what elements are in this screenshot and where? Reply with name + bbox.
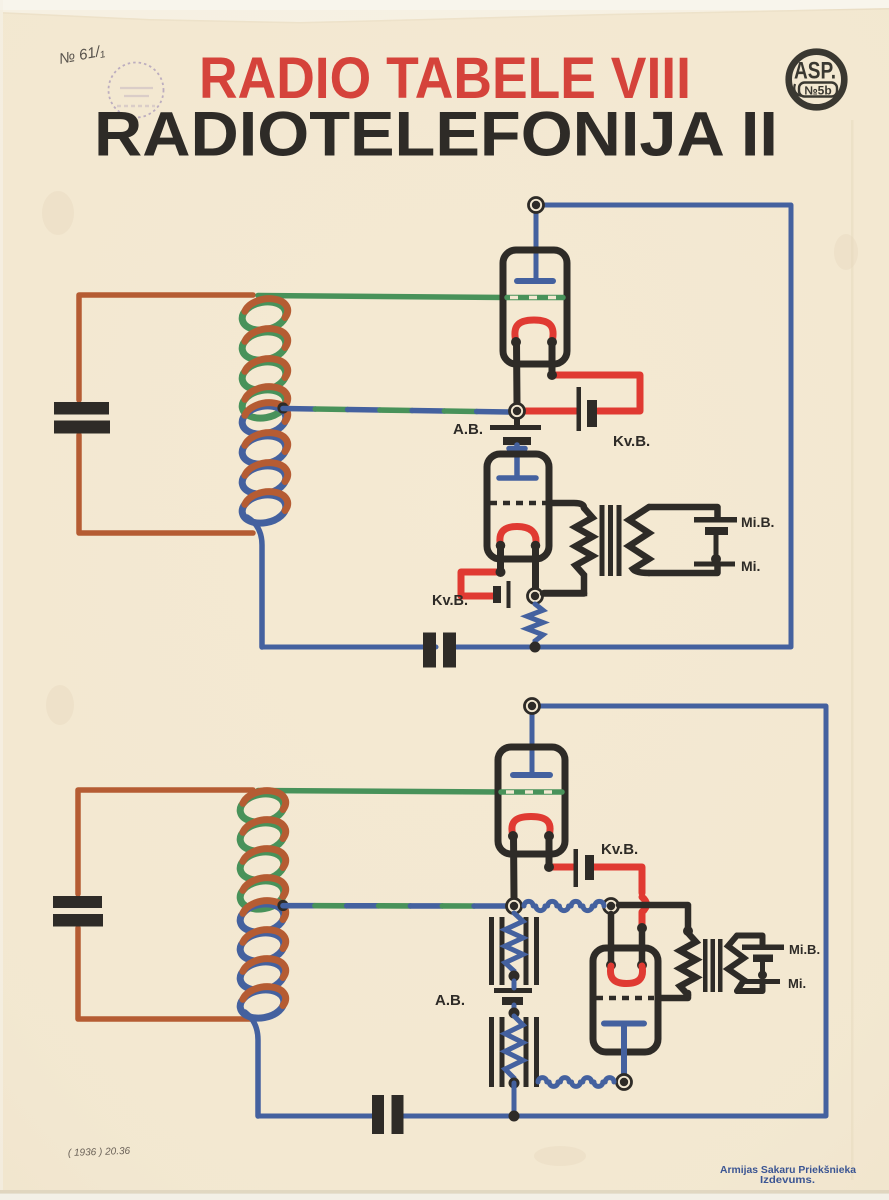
valve V4 envelope (inverted) xyxy=(593,948,658,1052)
wire: orange aerial circuit loop xyxy=(79,295,253,533)
battery Mi.B. (microphone battery) xyxy=(694,517,737,535)
capacitor C2 on bottom rail xyxy=(423,633,456,668)
capacitor C3 (aerial tuning, bottom left) xyxy=(53,896,103,927)
valve V4 filament (red, at top) xyxy=(606,960,616,970)
node: HT terminal bottom circuit xyxy=(525,699,540,714)
wavy connector choke2 to terminal D xyxy=(538,1078,614,1087)
svg-text:( 1936 ) 20.36: ( 1936 ) 20.36 xyxy=(68,1146,131,1159)
wire: stem from terminal to A.B. xyxy=(514,416,520,425)
svg-text:A.B.: A.B. xyxy=(435,992,465,1009)
transformer T1 primary winding (zigzag) xyxy=(544,508,593,593)
node: terminal D xyxy=(617,1075,632,1090)
battery A.B. (grid bias) xyxy=(490,425,541,445)
node: terminal A (grid return) xyxy=(507,899,522,914)
node: grid-return terminal under V1 xyxy=(510,404,525,419)
wire: choke 2 to bottom rail xyxy=(512,1083,517,1116)
wire: secondary to microphone loop (bottom circuit) xyxy=(737,936,763,945)
battery Mi.B. (bottom circuit) xyxy=(742,945,784,963)
svg-text:ASP.: ASP. xyxy=(794,58,836,85)
wire: green grid wire from coil to valve V1 xyxy=(258,296,506,298)
transformer T2 secondary (chevrons) xyxy=(728,936,744,992)
wire: red filament loop to Kv.B battery (bottom circuit) xyxy=(549,864,573,871)
wire: V1 filament right pin xyxy=(549,342,556,375)
wire: blue from coil L2 bottom to rail xyxy=(245,1012,258,1116)
node: coil tap junction xyxy=(277,402,288,413)
svg-text:Mi.: Mi. xyxy=(741,558,760,574)
wire: red hop over black wire then to V4 pin xyxy=(642,897,647,928)
microphone Mi (bottom circuit) xyxy=(760,962,765,975)
transformer T1 core (three bars) xyxy=(600,505,622,576)
wire: V2 filament right pin to cathode terminal xyxy=(532,546,539,589)
wire: terminal B to transformer and valve V4 xyxy=(619,905,688,930)
wire: blue plate lead into valve V3 xyxy=(530,706,535,775)
paper stains and crease (decorative, faint) xyxy=(42,191,858,1166)
valve V1 filament (red) xyxy=(515,320,553,342)
wire: tapped grid-return line (blue/green dashed) xyxy=(283,406,315,412)
svg-text:Mi.: Mi. xyxy=(788,976,806,991)
valve V1 envelope xyxy=(503,250,567,364)
wire: blue HT loop (top rail, right side, bottom rail) xyxy=(262,205,791,647)
wire: V3 right pin xyxy=(546,836,553,867)
choke 2: blue zigzag winding xyxy=(505,1016,523,1083)
choke 1: blue zigzag winding xyxy=(505,913,523,976)
svg-text:Kv.B.: Kv.B. xyxy=(432,593,468,609)
valve V3 anode xyxy=(513,772,550,778)
ASP No5b logo xyxy=(789,52,845,108)
valve V3 filament xyxy=(512,817,550,837)
capacitor C1 (aerial tuning, left) xyxy=(54,402,110,434)
capacitor C4 on bottom rail xyxy=(372,1095,404,1134)
wire: blue HT loop bottom circuit xyxy=(258,706,826,1116)
wire: blue plate lead from terminal into valve V1 xyxy=(534,205,539,281)
wire: red filament heating loop to Kv.B battery xyxy=(552,375,640,411)
wire: orange aerial loop bottom xyxy=(78,790,253,1019)
transformer T1 secondary winding (chevrons) xyxy=(629,507,649,573)
battery Kv.B (filament battery of V1) xyxy=(577,387,598,431)
scan background top edge xyxy=(0,0,889,22)
wire: V3 left pin to terminal A xyxy=(510,836,518,898)
coil L1 lower winding (blue/orange) xyxy=(240,403,288,438)
node: HT terminal xyxy=(529,198,544,213)
svg-text:RADIOTELEFONIJA II: RADIOTELEFONIJA II xyxy=(94,100,778,170)
svg-text:№5b: №5b xyxy=(804,84,831,98)
valve V2 grid (dashed) + lead to transformer xyxy=(490,501,547,506)
transformer T2 core xyxy=(703,939,723,992)
microphone Mi element xyxy=(714,535,719,559)
svg-text:Kv.B.: Kv.B. xyxy=(613,433,650,450)
valve V1 grid (dashed green inside) xyxy=(507,295,563,301)
svg-text:A.B.: A.B. xyxy=(453,421,483,438)
transformer T2 primary (zigzag) xyxy=(680,933,696,995)
svg-text:Mi.B.: Mi.B. xyxy=(789,942,820,957)
wavy connector terminal A to B xyxy=(524,901,604,910)
coil L2 lower winding (blue/orange) xyxy=(238,901,286,936)
wire: red loop to filament battery Kv.B of V2 xyxy=(461,572,501,596)
wire: tap line to terminal A (green/blue dashed) xyxy=(283,903,315,909)
svg-text:Mi.B.: Mi.B. xyxy=(741,514,774,530)
valve V2 envelope xyxy=(487,454,549,559)
valve V4 anode (blue, at bottom) xyxy=(604,1024,644,1075)
valve V1 anode (blue bar) xyxy=(517,278,553,284)
coil L2 upper winding (green/orange) xyxy=(238,791,286,826)
resistor (blue zigzag) to bottom rail xyxy=(527,604,543,647)
scan background left edge xyxy=(0,0,3,1200)
wire: secondary to microphone loop (top and bottom) xyxy=(649,507,718,517)
coil L1 upper winding (green/orange) xyxy=(240,299,288,334)
wire: V1 filament left pin down to junction xyxy=(513,342,521,403)
wire: V2 filament left pin xyxy=(497,546,504,573)
wire: green grid wire to valve V3 xyxy=(258,791,501,793)
valve V3 envelope xyxy=(498,747,565,854)
choke 1: core bars xyxy=(489,917,539,985)
wire: blue anode feed into valve V2 xyxy=(499,445,536,478)
battery A.B. (bottom circuit) xyxy=(494,988,532,1005)
svg-text:Kv.B.: Kv.B. xyxy=(601,841,638,858)
wire: blue from coil bottom to bottom rail xyxy=(247,517,262,647)
battery Kv.B of V2 xyxy=(493,581,511,608)
battery Kv.B (bottom circuit) xyxy=(574,849,595,887)
scan background bottom edge xyxy=(0,1193,889,1200)
valve V2 filament (red) xyxy=(500,527,536,546)
choke 2: core bars xyxy=(489,1017,539,1087)
node: coil L2 tap xyxy=(277,900,288,911)
wire: terminal to transformer primary return xyxy=(543,590,584,597)
valve V3 grid (dashed green) xyxy=(501,789,562,795)
library stamp (faded violet) xyxy=(109,63,164,118)
svg-text:Izdevums.: Izdevums. xyxy=(760,1174,815,1186)
node: cathode terminal xyxy=(528,589,543,604)
valve V4 grid (dashed) + lead to transformer primary xyxy=(596,996,654,1001)
node: terminal B xyxy=(604,899,619,914)
